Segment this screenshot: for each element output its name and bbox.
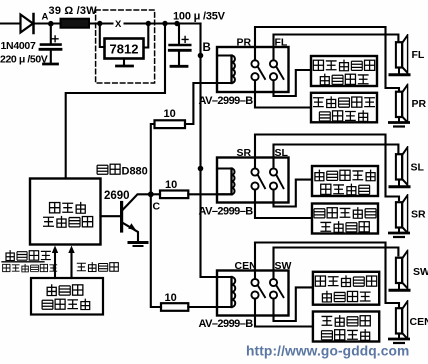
svg-text:PR: PR <box>237 37 252 49</box>
wire with arrow: mute control into protection box <box>68 246 74 279</box>
label: 本级功放 <box>6 250 14 260</box>
ground bar below speaker FL <box>389 68 411 75</box>
relay K3 contact 1 (CEN) circles <box>251 279 258 286</box>
amplifier block box: 环绕右声道功放电路 <box>312 204 378 234</box>
relay K1 AV-2999-B box <box>217 47 289 92</box>
junction dot: 7812 output pin tap <box>146 21 151 26</box>
ground pin of 7812 <box>117 59 133 67</box>
junction dot (relay 2 coil feed) <box>198 166 204 172</box>
svg-text:PR: PR <box>412 98 427 110</box>
relay K1 coil <box>217 56 235 84</box>
wire: contact 1 to amp box 4 <box>255 190 312 218</box>
wire: R3 to relay 2 coil return <box>188 193 231 195</box>
node B junction dot (relay 1 coil feed) <box>198 53 204 59</box>
svg-text:http://www.go-gddq.com: http://www.go-gddq.com <box>246 344 409 359</box>
speaker SR <box>396 195 408 233</box>
amplifier block box: 前置左声道功放电路 <box>311 56 377 86</box>
speaker FL <box>396 35 408 73</box>
wire: protection box output to Q1 base <box>101 215 121 217</box>
amplifier block box: 前置右声道功放电路 <box>311 93 377 123</box>
svg-text:C: C <box>153 201 161 213</box>
capacitor C2 100μ/35V (electrolytic) <box>169 24 190 65</box>
relay K2 coil <box>217 169 235 195</box>
junction dot: rail to protection-circuit feed <box>162 21 167 26</box>
svg-text:SR: SR <box>237 147 252 159</box>
wire: diode cathode to node A <box>34 22 60 24</box>
wire: rail down-left to speaker protection box <box>66 24 165 179</box>
Q1 emitter lead with arrow <box>123 223 138 241</box>
net SR: contact 1 to speaker line <box>255 135 399 201</box>
underline below 本级功放 <box>2 261 44 263</box>
label: 扬声器 <box>50 203 60 213</box>
Q1 collector lead to node C <box>123 194 148 209</box>
relay K2 contact 1 arm <box>258 175 265 189</box>
relay K1 contact 1 (PR) circles <box>251 60 258 67</box>
svg-text:SR: SR <box>411 209 426 221</box>
wire: contact 1 to amp box 6 <box>255 299 313 327</box>
ground symbol below speaker SR <box>388 228 410 238</box>
wire: 7812 input pin <box>100 24 105 48</box>
speaker SW <box>396 250 408 288</box>
relay K3 contact 2 (SW) circles <box>270 279 277 286</box>
svg-text:SL: SL <box>275 147 289 159</box>
relay K2 contact 2 (SL) circles <box>270 168 277 175</box>
net SL: contact 2 to speaker line <box>274 145 399 169</box>
junction dot: 7812 input pin tap <box>97 21 102 26</box>
svg-text:10: 10 <box>165 292 177 304</box>
wire: R4 to relay 3 coil return <box>188 306 231 308</box>
wire: node B vertical supply line to relay coils <box>201 24 232 278</box>
relay K1 contact 2 arm <box>276 66 283 79</box>
relay K2 contact 1 (SR) circles <box>251 168 258 175</box>
relay K2 AV-2999-B box <box>217 158 289 203</box>
microcomputer control circuit box <box>31 278 103 315</box>
wire: node C down to resistor R4 <box>151 197 161 307</box>
capacitor C1 220μ/50V (electrolytic) <box>40 26 61 63</box>
svg-text:B: B <box>203 42 211 54</box>
ground below C1 <box>44 63 58 66</box>
relay K3 contact 2 arm <box>276 285 283 297</box>
ground below C2 <box>171 65 187 68</box>
ground bar below speaker SL <box>389 180 411 187</box>
speaker CEN <box>396 301 408 339</box>
svg-text:39 Ω /3W: 39 Ω /3W <box>49 5 98 17</box>
wire: contact 2 to amp box 3 <box>274 180 313 207</box>
net PR: contact 1 to speaker line <box>255 27 399 91</box>
svg-text:FL: FL <box>412 49 425 61</box>
net SW: contact 2 to speaker line <box>274 248 399 279</box>
svg-text:220 μ /50V: 220 μ /50V <box>0 54 48 66</box>
label: 直流电压检测 <box>3 264 10 271</box>
svg-text:10: 10 <box>164 108 176 120</box>
speaker PR <box>396 84 408 122</box>
relay K3 coil <box>217 277 235 307</box>
node C junction dot <box>148 191 154 197</box>
resistor R3 10 <box>160 191 188 199</box>
amplifier block box: 重低音声道放大电路 <box>313 272 379 305</box>
ground bar below speaker SW <box>389 283 411 290</box>
node X label on rail <box>114 18 124 30</box>
wire: AC input to diode anode <box>0 22 20 24</box>
ground symbol below speaker CEN <box>388 334 410 344</box>
svg-text:SL: SL <box>411 162 425 174</box>
wire: contact 2 to amp box 5 <box>274 287 313 321</box>
speaker protection circuit box <box>30 179 101 245</box>
svg-text:AV–2999–B: AV–2999–B <box>199 95 254 107</box>
wire: R2 to relay 1 coil return (via x=193.4) <box>185 83 217 124</box>
label: 控制电路 <box>42 300 53 309</box>
relay K1 contact 2 (FL) circles <box>270 60 277 67</box>
resistor R2 10 <box>155 120 186 128</box>
transistor Q1 2690 (D880) base bar <box>120 203 123 232</box>
wire: 7812 output pin <box>144 24 149 48</box>
speaker SL <box>396 147 408 185</box>
label: 保护电路 <box>43 217 54 226</box>
svg-text:D880: D880 <box>122 166 148 178</box>
label: 微电脑 <box>47 284 56 295</box>
svg-text:AV–2999–B: AV–2999–B <box>199 206 254 218</box>
svg-text:FL: FL <box>275 37 288 49</box>
svg-text:X: X <box>115 19 122 30</box>
relay K2 contact 2 arm <box>276 175 283 189</box>
relay K1 contact 1 arm <box>258 66 265 79</box>
wire: node C to resistor R3 <box>154 193 160 195</box>
relay K3 contact 1 arm <box>258 285 265 297</box>
svg-text:SW: SW <box>413 266 428 278</box>
svg-text:CEN: CEN <box>410 316 428 328</box>
C2 plus sign <box>182 37 188 43</box>
svg-text:CEN: CEN <box>235 260 257 272</box>
ground symbol below speaker PR <box>388 117 410 127</box>
svg-text:1N4007: 1N4007 <box>1 40 36 52</box>
label: 静音控制 <box>77 263 86 270</box>
junction dot: rail to C2 <box>174 21 179 26</box>
svg-text:A: A <box>42 12 49 23</box>
amplifier block box: 环绕左声道功放电路 <box>312 166 378 196</box>
net FL: contact 2 to speaker line <box>274 35 399 61</box>
ground below Q1 emitter <box>129 243 147 247</box>
svg-text:AV–2999–B: AV–2999–B <box>199 318 254 330</box>
resistor R4 10 <box>161 303 188 311</box>
wire: contact 2 to amp box 1 <box>274 70 312 96</box>
svg-text:SW: SW <box>275 260 292 272</box>
diode D1 1N4007 <box>21 14 34 33</box>
regulator U1 7812 <box>105 39 144 59</box>
relay K3 AV-2999-B box <box>217 271 289 316</box>
svg-text:100 μ /35V: 100 μ /35V <box>173 11 226 23</box>
wire: main +V rail <box>89 22 201 24</box>
net CEN: contact 1 to speaker line <box>255 243 399 307</box>
C1 plus sign <box>52 36 58 42</box>
svg-text:10: 10 <box>165 179 177 191</box>
svg-text:2690: 2690 <box>104 190 130 202</box>
dashed box around 7812 regulator <box>96 10 155 83</box>
wire: contact 1 to amp box 2 <box>255 80 311 107</box>
wire with arrow: DC voltage detect into protection box <box>52 246 58 279</box>
svg-text:7812: 7812 <box>110 42 139 57</box>
node A junction dot <box>48 21 54 27</box>
amplifier block box: 中置声道放大电路 <box>313 312 379 342</box>
wire: node C up to resistor R2 <box>151 124 155 192</box>
resistor R1 39Ω/3W <box>61 19 90 28</box>
